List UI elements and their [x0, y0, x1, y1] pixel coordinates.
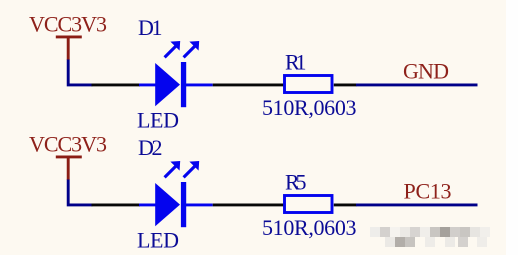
pin 1 of D1 (anode stub) — [139, 83, 156, 86]
svg-text:LED: LED — [137, 228, 179, 253]
wire (black segment to D2 anode) — [92, 203, 141, 206]
power port VCC3V3 (bottom) bar — [56, 155, 82, 158]
svg-text:VCC3V3: VCC3V3 — [29, 132, 107, 157]
wire D1 to R1 (black) — [213, 83, 284, 86]
svg-text:LED: LED — [137, 108, 179, 133]
pin 1 of D2 (anode stub) — [139, 203, 156, 206]
power port VCC3V3 (bottom) stem — [67, 157, 70, 180]
LED D1 emission arrow 1 — [165, 41, 181, 57]
wire GND net (navy) — [356, 83, 478, 86]
wire R5 to PC13 net (black stub) — [334, 203, 357, 206]
svg-text:R1: R1 — [285, 50, 307, 75]
wire R1 to GND net (black stub) — [334, 83, 357, 86]
white margin strip right — [506, 0, 518, 255]
LED D2 cathode bar — [181, 182, 186, 227]
svg-text:510R,0603: 510R,0603 — [262, 95, 357, 120]
LED D2 emission arrow 1 — [165, 161, 181, 177]
LED D2 triangle — [155, 183, 180, 226]
pin 2 of D2 (cathode stub) — [186, 203, 213, 206]
pin 2 of D1 (cathode stub) — [186, 83, 213, 86]
svg-text:510R,0603: 510R,0603 — [262, 215, 357, 240]
svg-text:GND: GND — [403, 59, 449, 84]
wire PC13 net (navy) — [356, 203, 478, 206]
resistor R5 body — [285, 196, 333, 213]
watermark mosaic (pixelated) — [370, 227, 490, 247]
power port VCC3V3 (top) bar — [56, 35, 82, 38]
power port VCC3V3 (top) stem — [67, 37, 70, 60]
LED D1 triangle — [155, 63, 180, 106]
LED D1 cathode bar — [181, 62, 186, 107]
svg-text:PC13: PC13 — [404, 179, 452, 204]
svg-text:D1: D1 — [138, 15, 163, 40]
svg-text:VCC3V3: VCC3V3 — [29, 12, 107, 37]
svg-text:R5: R5 — [285, 170, 307, 195]
wire VCC3V3 to LED D1 (navy corner segment) — [68, 60, 92, 85]
wire VCC3V3 to LED D2 (navy corner segment) — [68, 180, 92, 205]
wire D2 to R5 (black) — [213, 203, 284, 206]
wire (black segment to D1 anode) — [92, 83, 141, 86]
LED D1 emission arrow 2 — [184, 41, 200, 57]
LED D2 emission arrow 2 — [184, 161, 200, 177]
resistor R1 body — [285, 76, 333, 93]
svg-text:D2: D2 — [138, 135, 163, 160]
